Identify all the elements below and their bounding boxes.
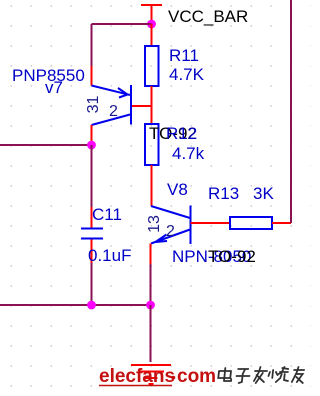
svg-text:4.7K: 4.7K (169, 65, 205, 84)
svg-text:R13: R13 (208, 184, 239, 203)
svg-text:R12: R12 (166, 124, 197, 143)
wire right edge vertical (290, 0, 292, 223)
烧 (268, 367, 290, 382)
svg-text:2: 2 (166, 223, 175, 240)
电 (218, 368, 232, 381)
junction dot emitter node (146, 301, 155, 310)
watermark elecfans.com (99, 366, 216, 387)
pin lead PNP base (132, 105, 152, 107)
pin lead V8 base / wire to R13 (191, 222, 231, 224)
wire ground stem (150, 305, 152, 362)
pin lead R13 right (272, 222, 291, 224)
watermark chinese 电子发烧友 (218, 367, 305, 383)
resistor R13 (230, 217, 272, 229)
svg-text:V8: V8 (167, 180, 188, 199)
wire V8 emitter down (150, 264, 152, 305)
capacitor C11 (81, 229, 103, 239)
svg-text:TO-92: TO-92 (208, 247, 256, 266)
junction dot at VCC node (147, 20, 156, 29)
resistor R12 (145, 124, 159, 165)
junction dot C11 bottom (87, 301, 96, 310)
ground symbol (131, 365, 171, 384)
pin lead C11 bottom (91, 240, 93, 264)
svg-text:2: 2 (109, 103, 118, 120)
pin lead PNP collector (91, 125, 93, 145)
wire PNP emitter vertical (91, 24, 93, 66)
wire C11 bottom down (91, 263, 93, 305)
svg-text:R11: R11 (169, 46, 199, 65)
wire left to collector node (0, 144, 92, 146)
svg-text:13: 13 (146, 215, 163, 233)
svg-text:31: 31 (85, 96, 102, 114)
pin lead C11 top (91, 207, 93, 228)
wire R11 to R12 (151, 86, 153, 124)
resistor R11 (145, 46, 159, 86)
svg-text:4.7k: 4.7k (172, 144, 205, 163)
子 (236, 369, 250, 383)
pin lead R12 bottom / wire to V8 collector (151, 165, 153, 206)
transistor V8 NPN-8050 (151, 206, 191, 245)
power symbol VCC_BAR (141, 5, 162, 24)
arrow NPN emitter (156, 235, 168, 243)
svg-text:v7: v7 (45, 78, 63, 97)
pin lead PNP emitter (91, 66, 93, 86)
junction dot collector node (87, 141, 96, 150)
pin lead R11 top (151, 24, 153, 46)
svg-text:3K: 3K (253, 184, 274, 203)
友 (292, 367, 305, 383)
svg-text:com: com (177, 366, 216, 387)
svg-text:0.1uF: 0.1uF (88, 246, 131, 265)
wire bottom rail (0, 304, 151, 306)
wire VCC node to PNP emitter (horizontal) (92, 23, 152, 25)
pin lead V8 emitter (150, 244, 152, 265)
svg-text:VCC_BAR: VCC_BAR (168, 7, 248, 26)
wire collector node down to C11 (91, 145, 93, 207)
发 (254, 367, 268, 383)
transistor Q v7 PNP8550 (92, 85, 132, 125)
svg-text:elecfans: elecfans (99, 366, 175, 387)
svg-text:C11: C11 (92, 205, 122, 224)
arrow PNP emitter (118, 88, 128, 98)
